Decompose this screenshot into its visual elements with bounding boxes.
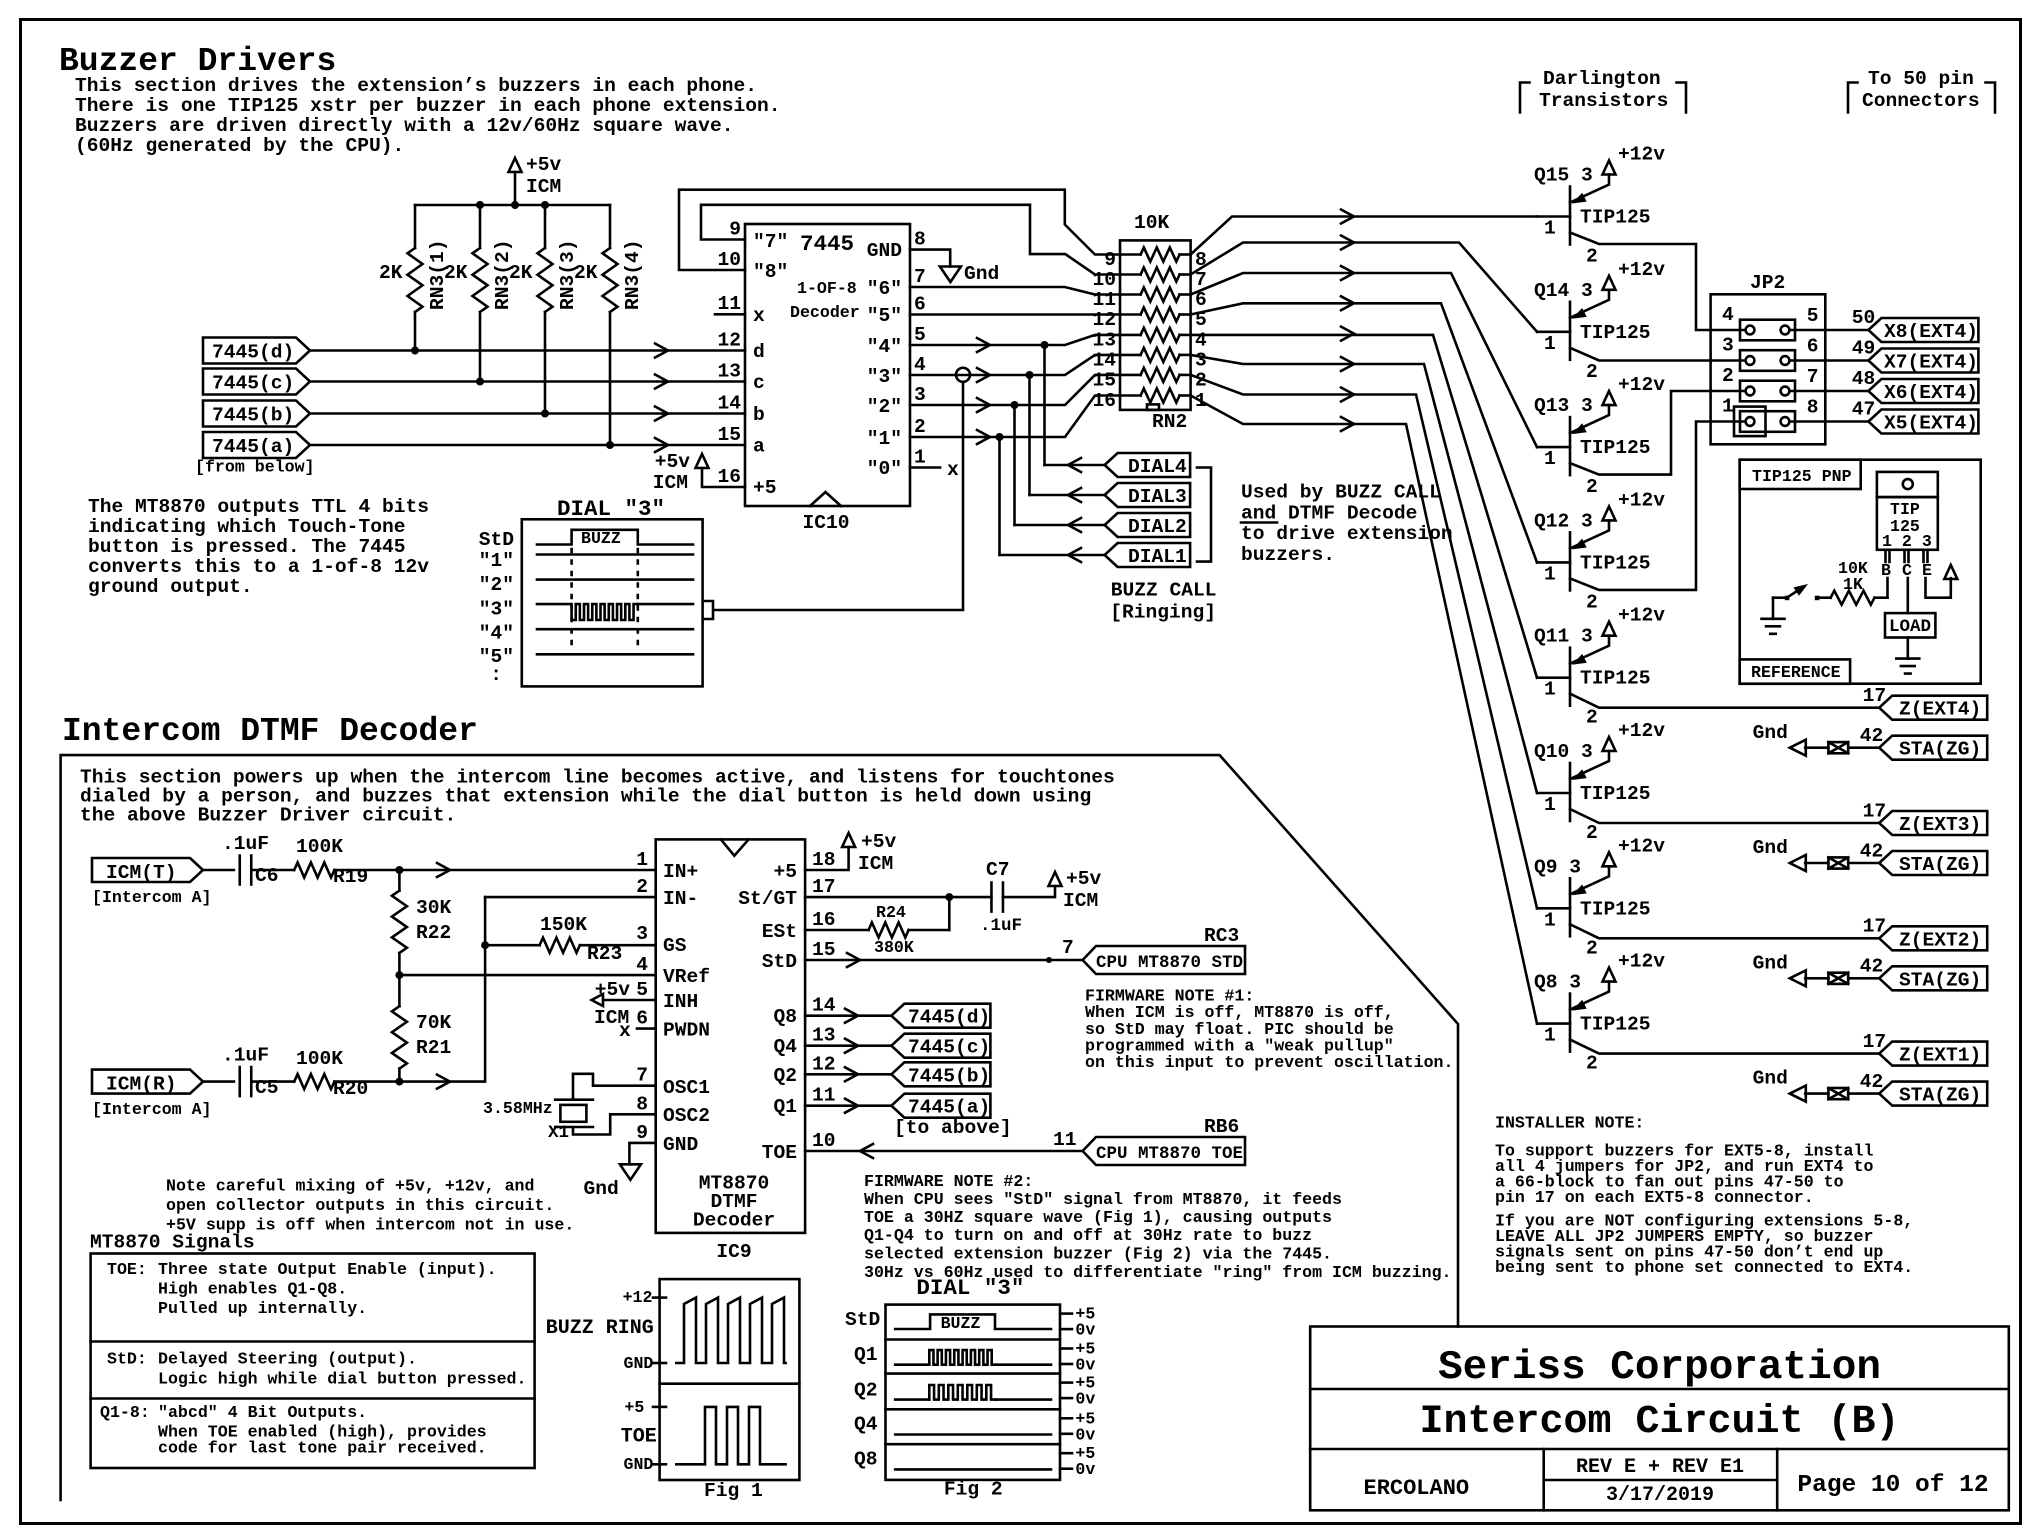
resistor RN3(3) 2K [509,205,579,414]
svg-text:42: 42 [1860,956,1884,978]
wire Q11 collector to Z(EXT4) [1570,694,1879,708]
wire JP2 pin7 to X6(EXT4) [1789,390,1868,393]
svg-text:indicating which Touch-Tone: indicating which Touch-Tone [88,516,405,538]
svg-text:Delayed Steering (output).: Delayed Steering (output). [158,1350,417,1369]
svg-text:StD:: StD: [107,1350,147,1369]
svg-text:+12: +12 [623,1288,653,1307]
node X8(EXT4) flag [1868,318,1978,343]
Fig2 Q8 waveform [895,1468,1051,1471]
svg-text:Q8: Q8 [773,1006,797,1028]
wire IC10 pin3 output 2 to RN2 pin15 [910,375,1120,405]
svg-text:Q2: Q2 [773,1065,797,1087]
svg-text:3: 3 [1722,335,1734,357]
svg-text:converts this to a 1-of-8 12v: converts this to a 1-of-8 12v [88,556,429,578]
svg-text:7: 7 [914,266,926,288]
wire IC10 pin7 output 6 to RN2 pin11 [910,287,1120,295]
ground Gnd at STA(ZG) row 2 [1753,837,1806,871]
MT8870 signals table [91,1254,535,1469]
waveform StD with BUZZ pulse [537,529,693,548]
wire JP2 pin8 to X5(EXT4) [1789,420,1868,423]
svg-text:[Intercom A]: [Intercom A] [92,1100,212,1119]
svg-text:d: d [753,341,765,363]
svg-text:"0": "0" [867,458,902,480]
svg-text:1: 1 [1544,1025,1556,1047]
wire R20 to IN- vertical [334,897,485,1082]
wire DIAL4 to drop [1045,464,1105,467]
svg-text:Transistors: Transistors [1539,90,1668,112]
svg-text:16: 16 [717,466,741,488]
arrow on output 2 [977,398,990,412]
node 7445(b) input flag [203,401,310,427]
arrow on DIAL4 wire [1068,458,1081,472]
svg-text:TOE:: TOE: [107,1260,147,1279]
junction on bus at RN3(2) [476,201,484,209]
LOAD box [1885,613,1935,637]
waveform row 1 line [537,553,693,556]
wire Gnd to ferrite STA row 2 [1805,862,1828,865]
bracket for DIAL group [1197,468,1211,562]
transistor Q9 TIP125 [1534,835,1665,959]
arrow on Q8 base wire [1341,417,1354,431]
svg-text:Z(EXT1): Z(EXT1) [1899,1045,1981,1067]
svg-text:7445: 7445 [800,231,854,257]
label Darlington Transistors [1520,68,1686,113]
table row TOE text [107,1260,497,1318]
svg-text:+12v: +12v [1618,489,1665,511]
svg-text:a: a [753,436,765,458]
JP2 jumper row 4 [1740,411,1795,432]
ground Gnd at STA(ZG) row 3 [1753,952,1806,986]
wire IC10 pin11 stub [715,313,745,316]
capacitor C7 .1uF [980,859,1022,936]
resistor RN3(1) 2K [379,205,449,351]
wire St/GT pin17 [805,896,991,899]
svg-text:Used by BUZZ CALL: Used by BUZZ CALL [1241,482,1441,504]
svg-text:To 50 pin: To 50 pin [1868,68,1974,90]
svg-text:IN+: IN+ [663,861,698,883]
svg-text:c: c [753,372,765,394]
svg-text:CPU MT8870 TOE: CPU MT8870 TOE [1096,1144,1243,1164]
svg-text:2: 2 [1586,1053,1598,1075]
wire Q8 collector to Z(EXT1) [1570,1040,1879,1054]
svg-text:DIAL3: DIAL3 [1128,486,1187,508]
node STA(ZG) flag row 2 [1879,851,1987,876]
svg-text:16: 16 [812,909,836,931]
svg-text:High enables Q1-Q8.: High enables Q1-Q8. [158,1280,347,1299]
node 7445(b) flag [891,1062,990,1087]
JP2 jumper row 1 [1740,320,1795,341]
svg-text:11: 11 [812,1085,836,1107]
svg-text:7445(b): 7445(b) [212,405,294,427]
wire RN2 pin5 to Q12 base [1191,303,1537,562]
svg-text:StD: StD [479,529,514,551]
svg-text:1: 1 [1544,448,1556,470]
svg-text:7: 7 [1062,937,1074,959]
svg-text:"6": "6" [867,278,902,300]
svg-text:8: 8 [636,1093,648,1115]
svg-text:ERCOLANO: ERCOLANO [1364,1476,1470,1501]
svg-text:INH: INH [663,991,698,1013]
wire collector C to LOAD [1907,578,1910,613]
svg-text:ICM: ICM [1063,890,1098,912]
svg-text:BUZZ RING: BUZZ RING [546,1317,654,1340]
intercom section description [80,767,1115,827]
svg-text:X8(EXT4): X8(EXT4) [1884,321,1978,343]
svg-text:Gnd: Gnd [1753,722,1788,744]
wire ferrite to STA(ZG) flag row 4 [1848,1092,1879,1095]
wire C5 to R20 [251,1080,294,1083]
waveform labels StD 1-5 [479,529,514,686]
svg-text:JP2: JP2 [1750,272,1785,294]
junction IN- R23 [481,941,489,949]
junction output 2 to DIAL2 [1011,401,1019,409]
junction output 1 to DIAL1 [996,433,1004,441]
svg-text:7445(a): 7445(a) [908,1097,990,1119]
resistor R20 100K [294,1048,368,1100]
svg-text:1: 1 [1722,396,1734,418]
wire 7445(d) to IC10 pin [310,349,745,352]
bracket at DIAL-3 waveform box [705,601,713,619]
svg-text:70K: 70K [416,1012,452,1034]
svg-text:Q4: Q4 [854,1414,878,1436]
wire R24 vertical [948,897,951,930]
wire TOE pin10 to RB6 [805,1150,1083,1153]
svg-text:+12v: +12v [1618,144,1665,166]
svg-text:+12v: +12v [1618,259,1665,281]
wire JP2 pin6 to X7(EXT4) [1789,359,1868,362]
svg-text:Decoder: Decoder [790,303,860,322]
svg-text:GND: GND [867,240,902,262]
ferrite bead STA row 3 [1828,973,1848,984]
wire DIAL2 drop [1013,405,1016,525]
svg-text:Q8 3: Q8 3 [1534,972,1581,994]
svg-text:"1": "1" [479,550,514,572]
wire 7445(a) to IC10 pin [310,444,745,447]
svg-text:RN2: RN2 [1152,411,1187,433]
wire +5v bus for RN3 [415,204,610,207]
JP2 right pin numbers [1807,305,1819,419]
junction on bus at RN3(3) [541,201,549,209]
arrow on Q8 wire [845,1009,858,1023]
arrow on Q14 base wire [1341,236,1354,250]
svg-text:0v: 0v [1075,1321,1095,1340]
svg-text:+5: +5 [624,1398,644,1417]
svg-text:Intercom DTMF Decoder: Intercom DTMF Decoder [62,713,478,750]
svg-text:RN3(4): RN3(4) [622,239,644,310]
svg-text:Seriss Corporation: Seriss Corporation [1438,1345,1881,1391]
svg-text:Q10 3: Q10 3 [1534,741,1593,763]
svg-text:0v: 0v [1075,1356,1095,1375]
node DIAL1 flag [1105,543,1191,568]
resistor RN3(4) 2K [574,205,644,445]
node Z(EXT1) flag [1879,1042,1987,1067]
JP2 pin1 installed jumper box [1734,407,1766,437]
svg-text:Logic high while dial button p: Logic high while dial button pressed. [158,1370,526,1389]
svg-text:open collector outputs in this: open collector outputs in this circuit. [166,1196,554,1215]
svg-text:INSTALLER NOTE:: INSTALLER NOTE: [1495,1114,1644,1133]
svg-text:15: 15 [1092,369,1116,391]
wire Q1 to 7445(a) [805,1104,891,1107]
node DIAL2 flag [1105,513,1191,538]
svg-text:0v: 0v [1075,1460,1095,1479]
wire ICM(R) to C5 [203,1080,234,1083]
Fig1 TOE labels [621,1398,666,1474]
arrow on output 4 [977,338,990,352]
svg-text:R21: R21 [416,1037,451,1059]
svg-text:+5v: +5v [595,979,631,1001]
title block [1310,1327,2009,1511]
node 7445(a) input flag [203,432,310,458]
svg-text:ICM: ICM [526,176,561,198]
arrow on 7445(c) wire [655,375,668,389]
svg-text:18: 18 [812,849,836,871]
ground Gnd at IC9 pin9 [584,1143,656,1200]
ground Gnd at STA(ZG) row 4 [1753,1068,1806,1102]
svg-text:GND: GND [624,1455,654,1474]
svg-text:100K: 100K [296,836,343,858]
svg-text:ICM(R): ICM(R) [106,1074,177,1096]
node X6(EXT4) flag [1868,379,1978,404]
wire IC10 pin10 to RN2 pin9 [679,190,1120,270]
ferrite bead STA row 4 [1828,1088,1848,1099]
svg-text:When CPU sees "StD" signal fro: When CPU sees "StD" signal from MT8870, … [864,1190,1342,1209]
svg-text:5: 5 [1807,305,1819,327]
svg-text:Q8: Q8 [854,1449,878,1471]
transistor Q8 TIP125 [1534,951,1665,1075]
wire C7 to +5v ICM [1003,868,1102,912]
svg-text:Q14 3: Q14 3 [1534,280,1593,302]
arrow on Q9 base wire [1341,388,1354,402]
junction RN3(3) to 7445 input row [541,410,549,418]
svg-text:"4": "4" [867,336,902,358]
svg-text:2K: 2K [379,262,403,284]
hop loop on output 3 wire [956,368,970,382]
svg-text:x: x [753,305,765,327]
svg-text:There is one TIP125 xstr per b: There is one TIP125 xstr per buzzer in e… [75,95,781,117]
svg-text:1: 1 [914,447,926,469]
arrow on 7445(d) wire [655,344,668,358]
svg-text:"7": "7" [753,231,788,253]
ferrite bead STA row 2 [1828,857,1848,868]
arrow on Q10 base wire [1341,357,1354,371]
wire ICM(T) to C6 [203,869,234,872]
wire Gnd to ferrite STA row 1 [1805,746,1828,749]
svg-text:BUZZ CALL: BUZZ CALL [1111,580,1217,602]
svg-text:.1uF: .1uF [222,1045,269,1067]
junction St/GT R24 [945,893,953,901]
svg-text:Page 10 of 12: Page 10 of 12 [1797,1472,1988,1499]
Fig2 left labels [845,1309,880,1471]
svg-text:0v: 0v [1075,1390,1095,1409]
svg-text:+12v: +12v [1618,605,1665,627]
svg-text:C7: C7 [986,859,1010,881]
svg-text:7445(c): 7445(c) [212,373,294,395]
junction output 3 to DIAL3 [1026,371,1034,379]
node ICM(R) flag [92,1070,203,1096]
note careful mixing [166,1177,574,1235]
arrow on DIAL1 wire [1068,548,1081,562]
arrow on output 1 [977,430,990,444]
svg-text:OSC1: OSC1 [663,1077,710,1099]
svg-text:Q11 3: Q11 3 [1534,626,1593,648]
svg-text:11: 11 [1053,1129,1077,1151]
svg-text:BUZZ: BUZZ [581,529,621,548]
svg-text:Pulled up internally.: Pulled up internally. [158,1299,367,1318]
svg-text:9: 9 [636,1122,648,1144]
svg-text:8: 8 [1807,396,1819,418]
node Z(EXT3) flag [1879,811,1987,836]
svg-text:3: 3 [1195,349,1207,371]
waveform row 2 line [537,578,693,581]
svg-text:Q1-8:: Q1-8: [100,1403,150,1422]
svg-text:(60Hz generated by the CPU).: (60Hz generated by the CPU). [75,135,404,157]
waveform box Fig 2 [886,1305,1061,1480]
wire Q8 to 7445(d) [805,1014,891,1017]
svg-text:7: 7 [636,1065,648,1087]
Fig1 BUZZ RING labels [546,1288,666,1373]
transistor Q11 TIP125 [1534,605,1665,729]
svg-text:14: 14 [717,393,741,415]
Fig2 Q1 waveform [895,1350,1051,1365]
svg-text:Z(EXT2): Z(EXT2) [1899,929,1981,951]
ground under LOAD [1896,638,1919,674]
svg-text:STA(ZG): STA(ZG) [1899,854,1981,876]
IC10 right pin numbers [914,229,926,469]
svg-text:ICM: ICM [653,472,688,494]
svg-text:17: 17 [812,876,836,898]
svg-text:MT8870 Signals: MT8870 Signals [90,1232,255,1254]
wire IC10 pin1 output 0 unused [910,466,940,469]
svg-text:5: 5 [636,979,648,1001]
svg-text:7445(d): 7445(d) [908,1007,990,1029]
svg-text:GND: GND [663,1134,698,1156]
svg-text:TOE: TOE [762,1142,797,1164]
wire PWDN unused [619,1020,656,1042]
svg-text:Q1: Q1 [854,1344,878,1366]
svg-text:selected extension buzzer (Fig: selected extension buzzer (Fig 2) via th… [864,1245,1332,1264]
svg-text:STA(ZG): STA(ZG) [1899,739,1981,761]
svg-text:7445(c): 7445(c) [908,1037,990,1059]
svg-text:5: 5 [914,324,926,346]
note FIRMWARE NOTE 1 [1085,987,1453,1073]
wire 7445(c) to IC10 pin [310,380,745,383]
wire RN2 pin6 to Q13 base [1191,273,1537,447]
svg-text:3.58MHz: 3.58MHz [483,1099,553,1118]
node X7(EXT4) flag [1868,349,1978,374]
svg-text:TIP125: TIP125 [1580,207,1651,229]
svg-text:+5v: +5v [655,451,691,473]
node 7445(a) flag [891,1094,990,1119]
svg-text:10: 10 [812,1130,836,1152]
svg-text:14: 14 [812,995,836,1017]
svg-text:[Intercom A]: [Intercom A] [92,888,212,907]
svg-text:TIP125: TIP125 [1580,668,1651,690]
svg-text:TOE a 30HZ square wave (Fig 1): TOE a 30HZ square wave (Fig 1), causing … [864,1208,1332,1227]
svg-text:STA(ZG): STA(ZG) [1899,969,1981,991]
svg-text:+5: +5 [753,477,777,499]
svg-text:+5v: +5v [526,154,562,176]
svg-text:2: 2 [1586,707,1598,729]
svg-text:4: 4 [1195,329,1207,351]
svg-text:Gnd: Gnd [1753,837,1788,859]
svg-text:2: 2 [1586,361,1598,383]
wire DIAL1 to drop [1000,554,1105,557]
wire IC10 pin2 output 1 to RN2 pin16 [910,396,1120,438]
svg-text:x: x [619,1020,631,1042]
resistor R24 380K [869,903,950,957]
svg-text:7: 7 [1807,366,1819,388]
junction R22/VRef [395,971,403,979]
waveform BUZZ RING sawtooth [676,1298,785,1363]
svg-text:TIP125: TIP125 [1580,437,1651,459]
svg-text:ICM: ICM [858,853,893,875]
svg-text:GND: GND [624,1354,654,1373]
svg-text:Buzzers are driven directly wi: Buzzers are driven directly with a 12v/6… [75,115,733,137]
wire IC10 pin16 +5v ICM [653,451,745,494]
svg-text:b: b [753,404,765,426]
svg-text:12: 12 [717,330,741,352]
svg-text:Q13 3: Q13 3 [1534,395,1593,417]
note FIRMWARE NOTE 2 [864,1172,1452,1282]
dotted cursor lines [572,549,638,652]
resistor R21 70K [392,975,452,1082]
junction output 4 to DIAL4 [1041,341,1049,349]
svg-text:13: 13 [717,361,741,383]
wire DIAL3 drop [1028,375,1031,495]
svg-text:16: 16 [1092,390,1116,412]
svg-text:code for last tone pair receiv: code for last tone pair received. [158,1439,487,1458]
svg-text:TIP125: TIP125 [1580,898,1651,920]
waveform box DIAL 3 upper [522,496,703,686]
svg-text:TIP125 PNP: TIP125 PNP [1752,467,1852,486]
transistor Q14 TIP125 [1534,259,1665,383]
svg-text:DIAL1: DIAL1 [1128,546,1187,568]
wire JP2 pin5 to X8(EXT4) [1789,329,1868,332]
svg-text:"1": "1" [867,428,902,450]
waveform row 4 line [537,628,693,631]
svg-text:Q1-Q4 to turn on and off at 30: Q1-Q4 to turn on and off at 30Hz rate to… [864,1226,1312,1245]
wire Q12 collector to JP2 pin1 [1570,422,1745,590]
TIP125 PNP reference box [1740,460,1981,684]
svg-text:ground output.: ground output. [88,576,253,598]
svg-text:B: B [1881,561,1891,580]
svg-text:11: 11 [1092,289,1116,311]
wire DIAL1 drop [998,437,1001,555]
Fig2 StD waveform with BUZZ [895,1314,1051,1333]
node DIAL3 flag [1105,483,1191,508]
wire Q4 to 7445(c) [805,1044,891,1047]
ground Gnd at STA(ZG) row 1 [1753,722,1806,756]
svg-text:2K: 2K [444,262,468,284]
svg-text:"3": "3" [867,366,902,388]
svg-text:being sent to phone set connec: being sent to phone set connected to EXT… [1495,1258,1913,1277]
wire Gnd to ferrite STA row 3 [1805,977,1828,980]
waveform box Fig 1 [660,1279,800,1480]
transistor Q15 TIP125 [1534,144,1665,268]
svg-text:button is pressed. The 7445: button is pressed. The 7445 [88,536,405,558]
svg-text:42: 42 [1860,840,1884,862]
svg-text:2: 2 [1586,246,1598,268]
arrow on Q4 wire [845,1039,858,1053]
svg-text:IC10: IC10 [802,512,849,534]
svg-text:Z(EXT4): Z(EXT4) [1899,699,1981,721]
arrow on Q12 base wire [1341,296,1354,310]
svg-text:buzzers.: buzzers. [1241,544,1335,566]
wire INH +5v ICM [592,979,656,1029]
svg-text:9: 9 [729,219,741,241]
transistor Q13 TIP125 [1534,374,1665,498]
resistor R23 150K [540,914,623,965]
